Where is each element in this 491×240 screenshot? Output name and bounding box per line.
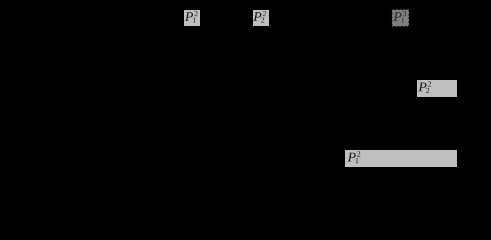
label P_2^2 (middle right box) — [418, 81, 431, 93]
label P_1^2 (top row, first box) — [185, 11, 198, 23]
task box P_2^2 (top row) — [253, 10, 269, 26]
task box P_1^2 (top row) — [184, 10, 200, 26]
label P_1^3 (ghost box) — [393, 11, 406, 23]
label P_2^2 (top row, second box) — [253, 11, 266, 23]
task box P_2^2 (middle right) — [417, 80, 457, 97]
task bar P_1^2 (bottom) — [345, 150, 457, 167]
ghost task box P_1^3 (dimmed fill with dashed border) — [392, 10, 408, 26]
label P_1^2 (bottom bar) — [348, 151, 361, 163]
